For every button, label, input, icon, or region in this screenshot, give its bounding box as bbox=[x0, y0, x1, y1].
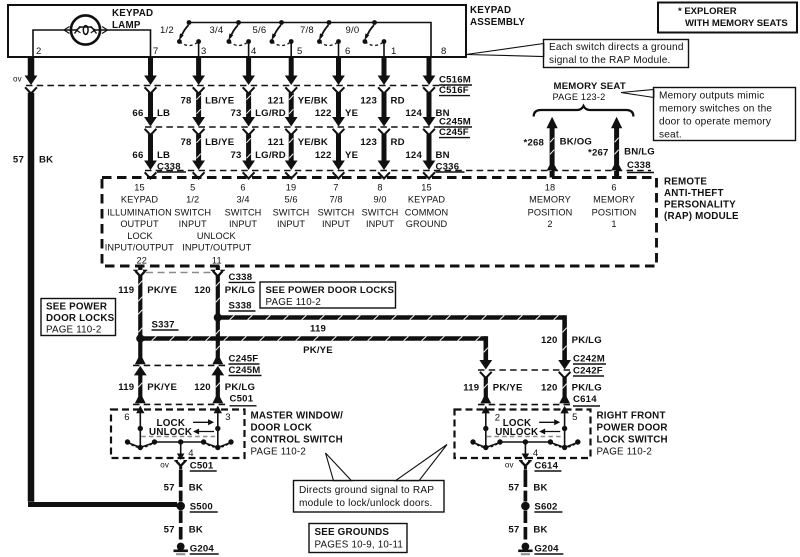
svg-text:C245M: C245M bbox=[439, 117, 471, 128]
svg-text:C614: C614 bbox=[534, 461, 558, 472]
svg-text:3/4: 3/4 bbox=[210, 25, 224, 36]
svg-text:ov: ov bbox=[13, 75, 22, 84]
svg-text:SWITCH: SWITCH bbox=[362, 207, 399, 217]
svg-text:DOOR LOCK: DOOR LOCK bbox=[251, 423, 313, 434]
connector C501 dashed line bbox=[133, 403, 226, 405]
svg-text:module to lock/unlock doors.: module to lock/unlock doors. bbox=[299, 498, 433, 509]
svg-text:1: 1 bbox=[391, 46, 396, 57]
wire 122 YE keypad bbox=[315, 56, 359, 179]
svg-text:MASTER WINDOW/: MASTER WINDOW/ bbox=[251, 411, 344, 422]
svg-text:8: 8 bbox=[441, 46, 446, 57]
svg-text:S337: S337 bbox=[152, 320, 175, 331]
svg-text:122: 122 bbox=[315, 108, 332, 119]
keypad switch 3/4 bbox=[210, 20, 252, 56]
svg-text:CONTROL SWITCH: CONTROL SWITCH bbox=[251, 435, 343, 446]
svg-text:YE/BK: YE/BK bbox=[298, 96, 328, 107]
svg-text:BN/LG: BN/LG bbox=[624, 147, 655, 158]
svg-text:RIGHT FRONT: RIGHT FRONT bbox=[597, 411, 666, 422]
svg-text:SEE GROUNDS: SEE GROUNDS bbox=[315, 527, 390, 538]
svg-text:BK: BK bbox=[39, 155, 53, 166]
keypad switch 5/6 bbox=[253, 20, 294, 56]
svg-text:BK: BK bbox=[533, 525, 547, 536]
wire lamp left lead bbox=[33, 30, 71, 56]
connector C245 dashed line left bbox=[133, 364, 226, 366]
note see power door locks right bbox=[260, 282, 396, 308]
svg-text:LB: LB bbox=[157, 108, 170, 119]
connector row C245M/C245F dashed line bbox=[145, 126, 445, 128]
callout pointer memory note bbox=[621, 90, 654, 98]
svg-text:ov: ov bbox=[505, 461, 514, 470]
svg-text:4: 4 bbox=[251, 46, 256, 57]
svg-text:SWITCH: SWITCH bbox=[174, 207, 211, 217]
wire 66 LB keypad bbox=[132, 56, 186, 179]
callout pointer to right switch bbox=[396, 445, 448, 481]
wire 120 PK/LG right drop bbox=[558, 360, 571, 413]
wire 120 PK/LG to master switch bbox=[211, 318, 224, 414]
wire 120 PK/LG from RAP pin 11 bbox=[211, 266, 225, 318]
RAP pin column 8 9/0 bbox=[362, 183, 399, 230]
RAP lock/unlock pin rows bbox=[105, 231, 252, 266]
svg-text:119: 119 bbox=[463, 383, 479, 394]
svg-text:memory switches on the: memory switches on the bbox=[659, 104, 772, 115]
RAP pin column 18 MEMORY bbox=[528, 183, 573, 230]
callout pointer to keypad bbox=[466, 44, 544, 57]
svg-text:7: 7 bbox=[333, 183, 338, 193]
svg-text:* EXPLORER: * EXPLORER bbox=[678, 6, 737, 17]
memory seat brace bbox=[534, 106, 634, 117]
svg-text:5: 5 bbox=[297, 46, 302, 57]
svg-text:5/6: 5/6 bbox=[284, 194, 297, 204]
svg-text:S338: S338 bbox=[229, 301, 253, 312]
svg-text:5: 5 bbox=[572, 412, 577, 423]
svg-text:KEYPAD: KEYPAD bbox=[408, 194, 445, 204]
svg-text:120: 120 bbox=[541, 335, 558, 346]
svg-text:5: 5 bbox=[190, 183, 195, 193]
svg-text:123: 123 bbox=[360, 96, 377, 107]
svg-text:LB/YE: LB/YE bbox=[205, 137, 235, 148]
svg-text:S500: S500 bbox=[190, 502, 213, 513]
svg-text:BK/OG: BK/OG bbox=[560, 137, 592, 148]
svg-text:INPUT/OUTPUT: INPUT/OUTPUT bbox=[182, 243, 251, 253]
wire 78 LB/YE keypad bbox=[181, 56, 235, 179]
svg-text:MEMORY SEAT: MEMORY SEAT bbox=[554, 81, 626, 92]
svg-text:UNLOCK: UNLOCK bbox=[149, 427, 192, 438]
svg-text:9/0: 9/0 bbox=[373, 194, 386, 204]
svg-text:C338: C338 bbox=[627, 160, 651, 171]
svg-text:C516M: C516M bbox=[439, 75, 471, 86]
svg-text:YE/BK: YE/BK bbox=[298, 137, 328, 148]
svg-text:4: 4 bbox=[188, 448, 193, 459]
svg-text:7/8: 7/8 bbox=[300, 25, 314, 36]
svg-text:PAGES 10-9, 10-11: PAGES 10-9, 10-11 bbox=[315, 540, 404, 551]
svg-text:1: 1 bbox=[611, 219, 616, 229]
svg-text:57: 57 bbox=[164, 525, 175, 536]
ground path C614 S602 G204 bbox=[505, 461, 564, 555]
svg-text:121: 121 bbox=[268, 137, 285, 148]
svg-text:SEE POWER DOOR LOCKS: SEE POWER DOOR LOCKS bbox=[266, 285, 395, 296]
svg-text:15: 15 bbox=[134, 183, 144, 193]
svg-text:POSITION: POSITION bbox=[592, 207, 637, 217]
connector C614 dashed line bbox=[478, 404, 570, 406]
wire keypad common bus bbox=[189, 23, 431, 57]
wire 113 bus from S337 to right door bbox=[140, 336, 488, 362]
svg-text:SEE POWER: SEE POWER bbox=[46, 302, 107, 313]
svg-text:57: 57 bbox=[164, 483, 175, 494]
splice S337 bbox=[136, 334, 144, 342]
svg-text:120: 120 bbox=[194, 285, 211, 296]
svg-text:INPUT/OUTPUT: INPUT/OUTPUT bbox=[105, 243, 174, 253]
RAP pin column 15 KEYPAD bbox=[107, 183, 172, 230]
wire 124 BN keypad bbox=[405, 56, 464, 179]
svg-text:C336: C336 bbox=[436, 161, 460, 172]
svg-text:OUTPUT: OUTPUT bbox=[120, 219, 159, 229]
wire *268 BK/OG memory seat bbox=[524, 117, 593, 178]
keypad assembly box bbox=[8, 5, 466, 57]
svg-text:2: 2 bbox=[495, 413, 500, 424]
wire lamp right lead bbox=[100, 30, 151, 56]
svg-text:C516F: C516F bbox=[439, 85, 469, 96]
svg-text:COMMON: COMMON bbox=[405, 207, 448, 217]
svg-text:BN: BN bbox=[436, 150, 450, 161]
svg-text:ov: ov bbox=[160, 461, 169, 470]
ground path C501 S500 G204 bbox=[160, 461, 219, 555]
svg-text:POWER DOOR: POWER DOOR bbox=[597, 423, 668, 434]
svg-text:LG/RD: LG/RD bbox=[255, 150, 286, 161]
svg-text:BK: BK bbox=[189, 483, 203, 494]
svg-text:78: 78 bbox=[181, 96, 193, 107]
svg-text:PAGE 110-2: PAGE 110-2 bbox=[46, 325, 102, 336]
svg-text:YE: YE bbox=[345, 108, 359, 119]
svg-text:LB/YE: LB/YE bbox=[205, 96, 235, 107]
svg-text:11: 11 bbox=[212, 255, 222, 265]
svg-text:PAGE 110-2: PAGE 110-2 bbox=[597, 447, 653, 458]
svg-text:2: 2 bbox=[547, 219, 552, 229]
svg-text:PAGE 123-2: PAGE 123-2 bbox=[553, 92, 606, 102]
note see grounds bbox=[309, 524, 407, 553]
svg-text:Memory outputs mimic: Memory outputs mimic bbox=[659, 91, 765, 102]
svg-text:LOCK: LOCK bbox=[127, 231, 153, 241]
svg-text:Directs ground signal to RAP: Directs ground signal to RAP bbox=[299, 485, 434, 496]
svg-text:66: 66 bbox=[132, 108, 143, 119]
svg-text:BK: BK bbox=[189, 525, 203, 536]
svg-text:INPUT: INPUT bbox=[366, 219, 394, 229]
svg-text:INPUT: INPUT bbox=[322, 219, 350, 229]
RAP pin column 6 3/4 bbox=[225, 183, 262, 230]
callout pointer to master switch bbox=[326, 453, 352, 481]
svg-text:S602: S602 bbox=[534, 502, 557, 513]
keypad lamp L1 bbox=[64, 15, 108, 44]
svg-text:BK: BK bbox=[533, 483, 547, 494]
svg-text:ILLUMINATION: ILLUMINATION bbox=[107, 207, 172, 217]
svg-text:PK/LG: PK/LG bbox=[225, 285, 255, 296]
svg-text:REMOTE: REMOTE bbox=[664, 177, 707, 188]
svg-text:122: 122 bbox=[315, 150, 332, 161]
svg-text:C242F: C242F bbox=[573, 366, 603, 377]
svg-text:57: 57 bbox=[508, 483, 519, 494]
svg-text:PK/YE: PK/YE bbox=[147, 285, 177, 296]
svg-text:KEYPAD: KEYPAD bbox=[470, 5, 511, 16]
svg-text:UNLOCK: UNLOCK bbox=[495, 427, 538, 438]
svg-text:signal to the RAP Module.: signal to the RAP Module. bbox=[549, 55, 671, 66]
svg-text:120: 120 bbox=[194, 382, 211, 393]
svg-text:123: 123 bbox=[360, 137, 377, 148]
svg-text:C245F: C245F bbox=[229, 354, 259, 365]
svg-text:124: 124 bbox=[405, 150, 422, 161]
svg-text:(RAP) MODULE: (RAP) MODULE bbox=[664, 211, 739, 222]
svg-text:57: 57 bbox=[508, 525, 519, 536]
svg-text:PK/LG: PK/LG bbox=[572, 383, 602, 394]
svg-text:DOOR LOCKS: DOOR LOCKS bbox=[46, 313, 115, 324]
svg-text:121: 121 bbox=[268, 96, 285, 107]
wire 119 bus from S338 to right door bbox=[218, 315, 567, 362]
svg-text:G204: G204 bbox=[190, 544, 215, 555]
svg-text:C338: C338 bbox=[157, 161, 181, 172]
svg-text:8: 8 bbox=[377, 183, 382, 193]
RAP pin column 5 1/2 bbox=[174, 183, 211, 230]
svg-text:MEMORY: MEMORY bbox=[593, 194, 635, 204]
svg-text:LG/RD: LG/RD bbox=[255, 108, 286, 119]
svg-text:G204: G204 bbox=[534, 544, 559, 555]
svg-text:119: 119 bbox=[118, 285, 134, 296]
svg-text:1/2: 1/2 bbox=[186, 194, 199, 204]
svg-text:6: 6 bbox=[611, 183, 616, 193]
svg-text:22: 22 bbox=[136, 255, 147, 265]
connector row C516M/C516F dashed line bbox=[26, 85, 445, 87]
note memory outputs mimic bbox=[654, 88, 796, 141]
svg-text:19: 19 bbox=[286, 183, 296, 193]
svg-text:UNLOCK: UNLOCK bbox=[197, 231, 237, 241]
svg-text:C501: C501 bbox=[230, 394, 254, 405]
splice S338 bbox=[214, 313, 222, 321]
svg-text:PK/YE: PK/YE bbox=[147, 382, 177, 393]
svg-text:9/0: 9/0 bbox=[346, 25, 360, 36]
svg-text:*268: *268 bbox=[524, 137, 545, 148]
wire *267 BN/LG memory seat bbox=[588, 117, 655, 178]
svg-text:PAGE 110-2: PAGE 110-2 bbox=[266, 297, 322, 308]
svg-text:SWITCH: SWITCH bbox=[273, 207, 310, 217]
svg-text:18: 18 bbox=[545, 183, 555, 193]
svg-text:7: 7 bbox=[153, 46, 158, 57]
svg-text:120: 120 bbox=[541, 383, 558, 394]
RAP pin column 6 MEMORY bbox=[592, 183, 637, 230]
svg-text:SWITCH: SWITCH bbox=[318, 207, 355, 217]
svg-text:2: 2 bbox=[36, 46, 41, 57]
svg-text:3: 3 bbox=[201, 46, 206, 57]
svg-text:C614: C614 bbox=[573, 394, 597, 405]
svg-text:PK/YE: PK/YE bbox=[493, 383, 523, 394]
svg-text:124: 124 bbox=[405, 108, 422, 119]
svg-text:INPUT: INPUT bbox=[179, 219, 207, 229]
wire 73 LG/RD keypad bbox=[231, 56, 286, 179]
svg-text:C242M: C242M bbox=[573, 354, 605, 365]
svg-text:KEYPAD: KEYPAD bbox=[121, 194, 158, 204]
connector row C338/C336 dashed line bbox=[145, 170, 651, 172]
svg-text:119: 119 bbox=[310, 324, 326, 335]
svg-text:3: 3 bbox=[225, 412, 230, 423]
svg-text:PK/LG: PK/LG bbox=[225, 382, 255, 393]
wire 57 BK from keypad pin 2 bbox=[25, 56, 177, 505]
note each switch directs ground bbox=[544, 40, 689, 68]
note explorer with memory seats bbox=[658, 3, 797, 33]
wire 123 RD keypad bbox=[360, 56, 404, 179]
svg-text:4: 4 bbox=[533, 448, 538, 459]
svg-text:5/6: 5/6 bbox=[253, 25, 267, 36]
note see power door locks left bbox=[41, 299, 116, 336]
wire 119 PK/YE from RAP pin 22 bbox=[133, 266, 147, 339]
svg-text:6: 6 bbox=[124, 412, 129, 423]
keypad switch 9/0 bbox=[346, 20, 387, 56]
svg-text:119: 119 bbox=[118, 382, 134, 393]
svg-text:66: 66 bbox=[132, 150, 143, 161]
svg-text:PK/LG: PK/LG bbox=[572, 335, 602, 346]
svg-text:57: 57 bbox=[13, 155, 24, 166]
svg-text:ASSEMBLY: ASSEMBLY bbox=[470, 17, 525, 28]
svg-text:PK/YE: PK/YE bbox=[303, 345, 333, 356]
wire 119 PK/YE to master switch bbox=[134, 339, 147, 414]
RAP pin column 15 KEYPAD bbox=[405, 183, 448, 230]
svg-text:ANTI-THEFT: ANTI-THEFT bbox=[664, 188, 724, 199]
svg-text:SWITCH: SWITCH bbox=[225, 207, 262, 217]
svg-text:RD: RD bbox=[391, 96, 405, 107]
keypad switch 7/8 bbox=[300, 20, 341, 56]
keypad switch 1/2 bbox=[160, 20, 201, 56]
svg-text:C245F: C245F bbox=[439, 127, 469, 138]
RAP pin column 7 7/8 bbox=[318, 183, 355, 230]
svg-text:15: 15 bbox=[421, 183, 431, 193]
svg-text:LOCK SWITCH: LOCK SWITCH bbox=[597, 435, 668, 446]
svg-text:C245M: C245M bbox=[229, 365, 261, 376]
svg-text:C501: C501 bbox=[190, 461, 214, 472]
svg-text:POSITION: POSITION bbox=[528, 207, 573, 217]
svg-text:1/2: 1/2 bbox=[160, 25, 174, 36]
svg-text:Each switch directs a ground: Each switch directs a ground bbox=[549, 42, 684, 53]
wire 121 YE/BK keypad bbox=[268, 56, 328, 179]
svg-text:PERSONALITY: PERSONALITY bbox=[664, 200, 736, 211]
memory seat header bbox=[553, 81, 626, 102]
svg-text:7/8: 7/8 bbox=[329, 194, 342, 204]
note directs ground signal bbox=[294, 481, 445, 513]
svg-text:3/4: 3/4 bbox=[236, 194, 249, 204]
svg-text:YE: YE bbox=[345, 150, 359, 161]
svg-text:LB: LB bbox=[157, 150, 170, 161]
svg-text:RD: RD bbox=[391, 137, 405, 148]
svg-text:KEYPAD: KEYPAD bbox=[112, 8, 153, 19]
master window/door lock control switch S1 bbox=[111, 410, 245, 461]
svg-text:78: 78 bbox=[181, 137, 193, 148]
svg-text:INPUT: INPUT bbox=[277, 219, 305, 229]
svg-text:WITH MEMORY SEATS: WITH MEMORY SEATS bbox=[685, 18, 788, 29]
svg-text:door to operate memory: door to operate memory bbox=[659, 117, 772, 128]
right front power door lock switch S2 bbox=[455, 410, 591, 461]
svg-text:INPUT: INPUT bbox=[229, 219, 257, 229]
svg-text:GROUND: GROUND bbox=[406, 219, 448, 229]
svg-text:73: 73 bbox=[231, 108, 242, 119]
RAP pin column 19 5/6 bbox=[273, 183, 310, 230]
svg-text:73: 73 bbox=[231, 150, 242, 161]
wire 119 PK/YE right drop bbox=[479, 360, 492, 413]
connector C338 gray dashed link bbox=[146, 272, 212, 274]
svg-text:6: 6 bbox=[240, 183, 245, 193]
svg-text:*267: *267 bbox=[588, 147, 609, 158]
connector C242 dashed line bbox=[478, 369, 570, 371]
svg-text:C338: C338 bbox=[229, 272, 253, 283]
svg-text:seat.: seat. bbox=[659, 130, 682, 141]
svg-text:PAGE 110-2: PAGE 110-2 bbox=[251, 447, 307, 458]
svg-text:MEMORY: MEMORY bbox=[529, 194, 571, 204]
svg-text:6: 6 bbox=[345, 46, 350, 57]
RAP module dashed box bbox=[102, 178, 657, 267]
